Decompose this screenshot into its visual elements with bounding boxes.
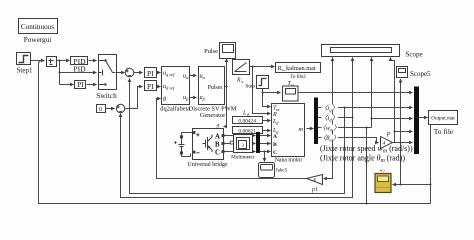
svg-text:Switch: Switch: [96, 91, 117, 100]
svg-text:B: B: [215, 142, 220, 149]
svg-text:C: C: [215, 150, 220, 157]
svg-text:Powergui: Powergui: [24, 36, 51, 44]
svg-text:4: 4: [313, 178, 316, 184]
svg-text:m: m: [299, 126, 304, 133]
svg-text:A: A: [273, 134, 277, 140]
svg-text:Scope: Scope: [406, 51, 423, 59]
svg-text:R: R: [236, 78, 241, 84]
svg-text:p1: p1: [311, 187, 318, 193]
svg-text:Pulses: Pulses: [208, 85, 224, 91]
svg-text:B: B: [273, 142, 277, 148]
svg-text:θ: θ: [163, 96, 166, 103]
svg-text:Continuous: Continuous: [21, 23, 54, 31]
svg-text:Step1: Step1: [17, 66, 33, 74]
svg-text:0: 0: [99, 107, 102, 113]
svg-text:Generator: Generator: [200, 112, 226, 119]
svg-text:PI: PI: [77, 80, 84, 89]
svg-text:0.00424: 0.00424: [238, 119, 256, 125]
svg-text:Multimeter: Multimeter: [231, 154, 255, 160]
svg-text:Pulse: Pulse: [204, 48, 218, 55]
svg-text:q ref: q ref: [166, 72, 175, 77]
svg-text:4: 4: [383, 141, 386, 147]
svg-text:Nana motor: Nana motor: [275, 158, 303, 164]
svg-text:g: g: [217, 123, 220, 129]
svg-text:R: R: [272, 111, 277, 118]
svg-text:Step: Step: [245, 84, 255, 90]
svg-text:Iabc5: Iabc5: [276, 169, 288, 174]
svg-text:To file2: To file2: [290, 75, 306, 80]
svg-text:C: C: [273, 150, 277, 156]
svg-text:PI: PI: [147, 69, 154, 78]
svg-text:Rs_kalman.mat: Rs_kalman.mat: [277, 65, 316, 72]
svg-text:PID: PID: [73, 65, 86, 74]
svg-text:PI: PI: [147, 82, 154, 91]
svg-text:0.00621: 0.00621: [238, 129, 256, 135]
svg-text:(Jixie rotor angle θm (rad)): (Jixie rotor angle θm (rad)): [320, 154, 405, 165]
svg-text:A: A: [215, 134, 220, 141]
svg-text:m: m: [291, 82, 294, 87]
svg-text:Output.mat: Output.mat: [431, 116, 455, 122]
svg-text:Universal bridge: Universal bridge: [187, 162, 227, 168]
svg-text:Scope5: Scope5: [410, 70, 431, 78]
svg-text:To file: To file: [434, 127, 454, 136]
svg-text:〈wm〉: 〈wm〉: [319, 124, 340, 132]
svg-text:dq2alfabeta: dq2alfabeta: [160, 106, 190, 113]
svg-text:d ref: d ref: [166, 86, 175, 91]
svg-text:p: p: [386, 130, 390, 137]
